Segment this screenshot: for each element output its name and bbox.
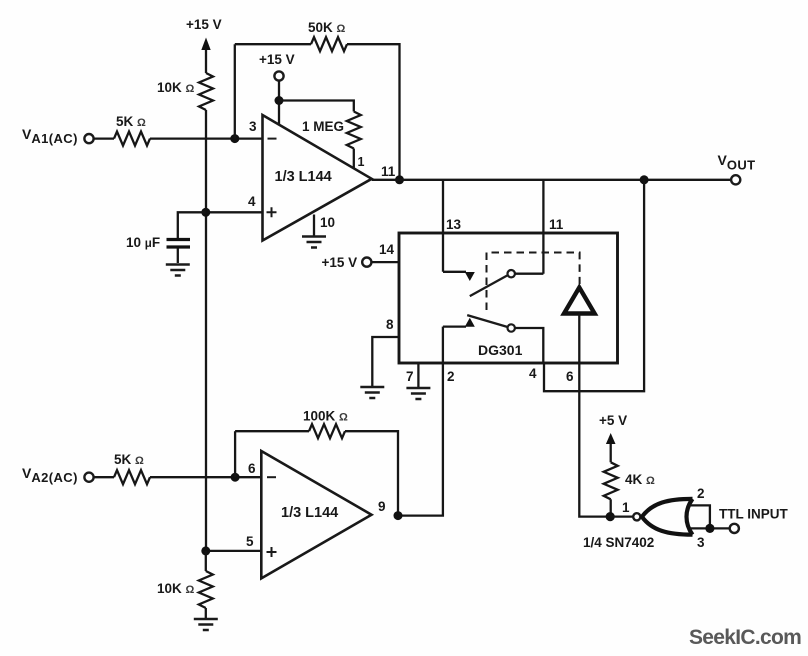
node junction inverting input U1 [230, 134, 239, 143]
resistor R 100K (feedback) [309, 424, 345, 438]
control buffer triangle [564, 288, 595, 314]
wire pin8 to ground [372, 337, 399, 386]
wire 10K to ground [205, 608, 207, 618]
resistor R 1MEG (vertical) [347, 112, 361, 149]
svg-text:+15 V: +15 V [186, 17, 222, 32]
resistor R 10K (top, vertical) [199, 73, 213, 110]
wire 1MEG bottom to U1 pin1 [353, 149, 355, 169]
svg-text:1 MEG: 1 MEG [302, 119, 344, 134]
svg-text:DG301: DG301 [478, 342, 523, 358]
op-amp U2 1/3 L144 [261, 451, 371, 578]
svg-text:4: 4 [529, 366, 537, 381]
svg-text:10: 10 [320, 215, 335, 230]
wire S1 circle to pin11 riser [515, 273, 544, 275]
wire pin14 [371, 261, 399, 263]
wire feedback left vertical [234, 44, 236, 138]
svg-text:10K Ω: 10K Ω [157, 80, 195, 95]
switch S1 lever [470, 275, 508, 296]
node junction NOR input [606, 512, 615, 521]
plus sign U2 [267, 547, 277, 557]
node junction U2 output [394, 511, 403, 520]
wire feedback U2 right segment down to output node [345, 431, 398, 515]
wire gate pin2 [689, 505, 710, 528]
svg-text:+15 V: +15 V [259, 52, 295, 67]
wire +15V terminal down to node [278, 81, 280, 125]
NOR gate U4 body (1/4 SN7402, mirrored) [642, 499, 693, 535]
svg-text:6: 6 [566, 369, 574, 384]
wire U1 pin4 (+ input) [206, 211, 263, 213]
svg-text:13: 13 [446, 217, 462, 232]
svg-text:1/4 SN7402: 1/4 SN7402 [583, 535, 654, 550]
resistor R 4K (vertical) [604, 462, 618, 499]
svg-text:SeekIC.com: SeekIC.com [689, 626, 801, 649]
wire U2 pin5 (+ input) [206, 550, 261, 552]
wire feedback top right segment [347, 44, 400, 180]
wire pin2 drop to U2 output [398, 363, 443, 516]
node junction TTL input [705, 524, 714, 533]
svg-text:11: 11 [549, 217, 564, 232]
svg-text:5: 5 [246, 534, 254, 549]
svg-text:50K Ω: 50K Ω [308, 20, 346, 35]
terminal VA2(AC) [84, 473, 93, 482]
resistor R 5K (lower input) [114, 470, 150, 484]
switch S2 lever [467, 315, 507, 327]
svg-text:3: 3 [249, 119, 257, 134]
wire VA1 terminal to 5K [94, 137, 114, 139]
wire feedback top left segment [235, 43, 311, 45]
svg-text:10 μF: 10 μF [126, 235, 160, 250]
wire gate pin3 [691, 527, 731, 529]
wire 4K to NOR node [610, 499, 612, 516]
ground (pin 8) [360, 387, 384, 398]
svg-text:8: 8 [386, 317, 394, 332]
wire pin4 drop, run right and rise to VOUT [544, 180, 644, 391]
terminal +15V (U1 supply) [274, 71, 283, 80]
svg-text:+15 V: +15 V [322, 255, 358, 270]
node junction U1 output [395, 175, 404, 184]
svg-text:VA2(AC): VA2(AC) [22, 465, 78, 485]
wire node to 10K (bottom) [205, 551, 207, 571]
wire feedback U2 left vertical [234, 431, 236, 477]
op-amp U1 1/3 L144 [263, 115, 372, 241]
switch S2 arrowhead [465, 318, 475, 327]
wire DG301 pin13 riser [442, 180, 444, 272]
resistor R 50K (feedback) [311, 37, 347, 51]
NOR gate U4 bubble [633, 513, 640, 520]
wire U1 output to VOUT terminal [372, 179, 731, 181]
svg-text:6: 6 [248, 461, 256, 476]
svg-text:5K Ω: 5K Ω [114, 452, 144, 467]
wire 5K to op-amp U1 inverting input [150, 137, 263, 139]
dashed control boundary [487, 253, 580, 311]
svg-text:2: 2 [447, 369, 455, 384]
svg-text:7: 7 [406, 369, 414, 384]
svg-text:5K Ω: 5K Ω [116, 114, 146, 129]
minus sign U1 [268, 138, 277, 140]
ground (capacitor) [166, 265, 190, 276]
wire node to 1MEG top [279, 101, 354, 112]
wire S2 circle to pin4 drop [515, 328, 543, 363]
svg-text:10K Ω: 10K Ω [157, 581, 195, 596]
wire pin2 inside box [442, 327, 444, 363]
ground (10K bottom) [194, 619, 218, 630]
ground (U1 pin10) [302, 237, 326, 248]
terminal VOUT [731, 175, 740, 184]
svg-text:1: 1 [358, 155, 365, 169]
power +15V top arrow [201, 38, 210, 74]
wire pin6 from buffer down to NOR node [579, 314, 606, 517]
plus sign U1 [267, 207, 277, 217]
svg-text:+5 V: +5 V [599, 413, 627, 428]
wire rail x=206 from 10K down to pin5 node [205, 110, 207, 551]
ground (pin 7) [406, 388, 430, 399]
wire U1 pin10 to ground [313, 215, 315, 236]
node junction rail / pin5 / 10K [201, 546, 210, 555]
wire pin7 stub [417, 363, 419, 387]
svg-text:14: 14 [379, 242, 395, 257]
wire capacitor branch [178, 212, 206, 238]
resistor R 10K (bottom, vertical) [199, 571, 213, 608]
minus sign U2 [267, 476, 276, 478]
svg-text:4K Ω: 4K Ω [625, 472, 655, 487]
switch S1 input stub [443, 271, 466, 273]
switch S1 contact circle [508, 270, 515, 277]
wire VA2 terminal to 5K [94, 476, 114, 478]
wire capacitor to ground [177, 249, 179, 264]
node junction U1 supply [275, 96, 284, 105]
power +5V arrow [606, 433, 616, 462]
svg-text:TTL INPUT: TTL INPUT [719, 507, 788, 522]
capacitor C 10uF [167, 240, 191, 248]
svg-text:VA1(AC): VA1(AC) [22, 126, 78, 146]
svg-text:3: 3 [697, 535, 705, 550]
terminal +15V (DG301 pin14) [362, 258, 371, 267]
svg-text:100K Ω: 100K Ω [303, 409, 348, 424]
node junction inverting input U2 [231, 473, 240, 482]
wire node to NOR bubble [610, 515, 633, 517]
wire feedback U2 top left segment [235, 430, 309, 432]
switch S2 contact circle [508, 324, 515, 331]
svg-text:11: 11 [381, 164, 396, 179]
svg-text:1: 1 [622, 500, 630, 515]
switch S2 input stub [443, 325, 466, 327]
svg-text:VOUT: VOUT [718, 152, 756, 173]
svg-text:9: 9 [378, 499, 386, 514]
node junction rail / pin4 / capacitor [201, 208, 210, 217]
resistor R 5K (upper input) [114, 132, 150, 146]
svg-text:4: 4 [248, 194, 256, 209]
IC U3 DG301 box [399, 233, 618, 363]
terminal VA1(AC) [84, 134, 93, 143]
node junction VOUT / pin4 riser [640, 175, 649, 184]
wire DG301 pin11 riser [542, 180, 544, 274]
wire 5K to U2 inverting input [150, 476, 261, 478]
svg-text:1/3 L144: 1/3 L144 [281, 505, 338, 521]
terminal TTL INPUT [730, 524, 739, 533]
svg-text:1/3 L144: 1/3 L144 [275, 169, 332, 185]
switch S1 arrowhead [465, 272, 475, 281]
svg-text:2: 2 [697, 486, 705, 501]
